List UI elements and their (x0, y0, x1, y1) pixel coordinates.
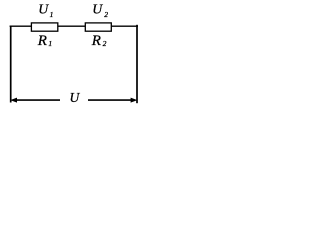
wire left vertical (10, 26, 12, 103)
voltage arrow U right head (131, 98, 138, 103)
voltage arrow U right segment (88, 99, 131, 101)
svg-text:1: 1 (50, 10, 54, 19)
svg-text:R: R (37, 33, 47, 49)
voltage arrow U left segment (16, 99, 60, 101)
voltage arrow U left head (10, 98, 17, 103)
svg-text:U: U (92, 2, 103, 17)
wire top-right segment (111, 25, 138, 27)
svg-text:2: 2 (103, 39, 107, 48)
svg-text:U: U (70, 90, 81, 105)
wire top-left segment (10, 25, 32, 27)
wire right vertical (136, 25, 138, 103)
resistor R2 (85, 23, 111, 31)
resistor R1 (31, 23, 57, 31)
svg-text:R: R (91, 33, 101, 49)
svg-text:U: U (38, 2, 49, 17)
wire between R1 and R2 (58, 25, 86, 27)
svg-text:1: 1 (48, 39, 52, 48)
svg-text:2: 2 (104, 10, 108, 19)
